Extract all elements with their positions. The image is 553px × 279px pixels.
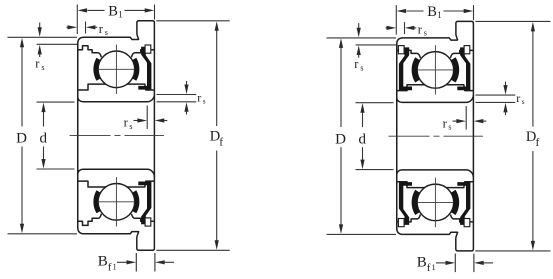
svg-text:r: r — [197, 90, 201, 104]
svg-text:r: r — [516, 91, 520, 105]
ball — [98, 51, 135, 88]
svg-text:f: f — [219, 136, 223, 148]
left shield — [399, 47, 412, 90]
svg-text:s: s — [203, 96, 206, 105]
svg-text:d: d — [359, 131, 367, 147]
svg-text:s: s — [522, 97, 525, 106]
dimension r_s face — [476, 94, 516, 96]
outer ring outline with flange — [84, 21, 154, 251]
dimension Df — [475, 20, 550, 22]
outer ring bore profile — [397, 214, 421, 222]
left face — [397, 38, 403, 235]
outer ring bore profile — [397, 50, 421, 58]
ball — [417, 184, 454, 221]
ball centerlines — [434, 178, 436, 227]
svg-text:1: 1 — [432, 262, 436, 272]
dimension r_s top — [404, 22, 406, 34]
dimension Bf1 — [454, 254, 456, 273]
svg-text:B: B — [427, 4, 437, 20]
svg-text:f: f — [427, 262, 431, 274]
svg-text:f: f — [108, 261, 112, 273]
svg-text:B: B — [108, 3, 118, 19]
inner ring bore — [78, 169, 155, 176]
inner ring profile — [78, 181, 155, 187]
outer ring bore profile — [78, 214, 102, 226]
outer ring outline with flange — [403, 21, 473, 251]
svg-text:f: f — [536, 137, 540, 149]
dimension Df — [156, 20, 229, 22]
outer ring bore profile — [78, 46, 102, 58]
svg-text:1: 1 — [118, 10, 123, 20]
right shield — [138, 47, 151, 90]
inner ring profile — [78, 84, 155, 90]
ball centerlines — [434, 45, 436, 94]
cage crescents — [412, 190, 420, 215]
dimension r_s left — [37, 43, 78, 45]
axis centerline — [70, 135, 164, 137]
cage crescents — [93, 190, 100, 213]
ball — [417, 52, 454, 89]
svg-text:s: s — [360, 63, 363, 72]
svg-text:s: s — [41, 63, 44, 72]
dimension Bf1 — [135, 253, 137, 272]
dimension r_s face — [157, 94, 197, 96]
right shield — [457, 47, 470, 90]
cage crescents — [412, 57, 420, 82]
dimension d — [37, 101, 75, 103]
inner ring profile — [397, 85, 474, 91]
inner ring bore — [397, 95, 474, 102]
right shield — [457, 182, 470, 225]
dimension d — [356, 102, 394, 104]
svg-text:1: 1 — [113, 262, 117, 272]
dimension D — [8, 36, 78, 38]
cage crescents — [93, 58, 100, 81]
inner ring bore — [78, 95, 155, 102]
svg-text:s: s — [448, 122, 451, 131]
left face — [78, 37, 84, 234]
svg-text:s: s — [129, 122, 132, 131]
dimension r_s top — [85, 22, 87, 34]
ball centerlines — [115, 177, 117, 226]
svg-text:s: s — [424, 29, 427, 38]
svg-text:D: D — [16, 131, 27, 147]
inner ring bore — [397, 170, 474, 177]
dimension B1 — [76, 5, 78, 35]
svg-text:B: B — [98, 254, 108, 270]
svg-text:1: 1 — [437, 10, 442, 20]
ball — [98, 184, 135, 221]
svg-text:s: s — [105, 28, 108, 37]
svg-text:D: D — [335, 131, 346, 147]
dimension r_s bore — [465, 106, 467, 130]
dimension r_s bore — [146, 106, 148, 130]
left figure: flanged bearing, open + single shield — [8, 3, 230, 273]
svg-text:B: B — [417, 254, 427, 270]
dimension B1 — [395, 5, 397, 34]
right figure: flanged bearing, double shielded — [327, 4, 551, 274]
ball centerlines — [115, 45, 117, 94]
axis centerline — [389, 135, 483, 137]
left shield — [399, 182, 412, 225]
dimension D — [327, 37, 397, 39]
inner ring profile — [397, 182, 474, 188]
right shield — [138, 182, 151, 225]
dimension r_s left — [356, 44, 397, 46]
svg-text:d: d — [40, 131, 48, 147]
